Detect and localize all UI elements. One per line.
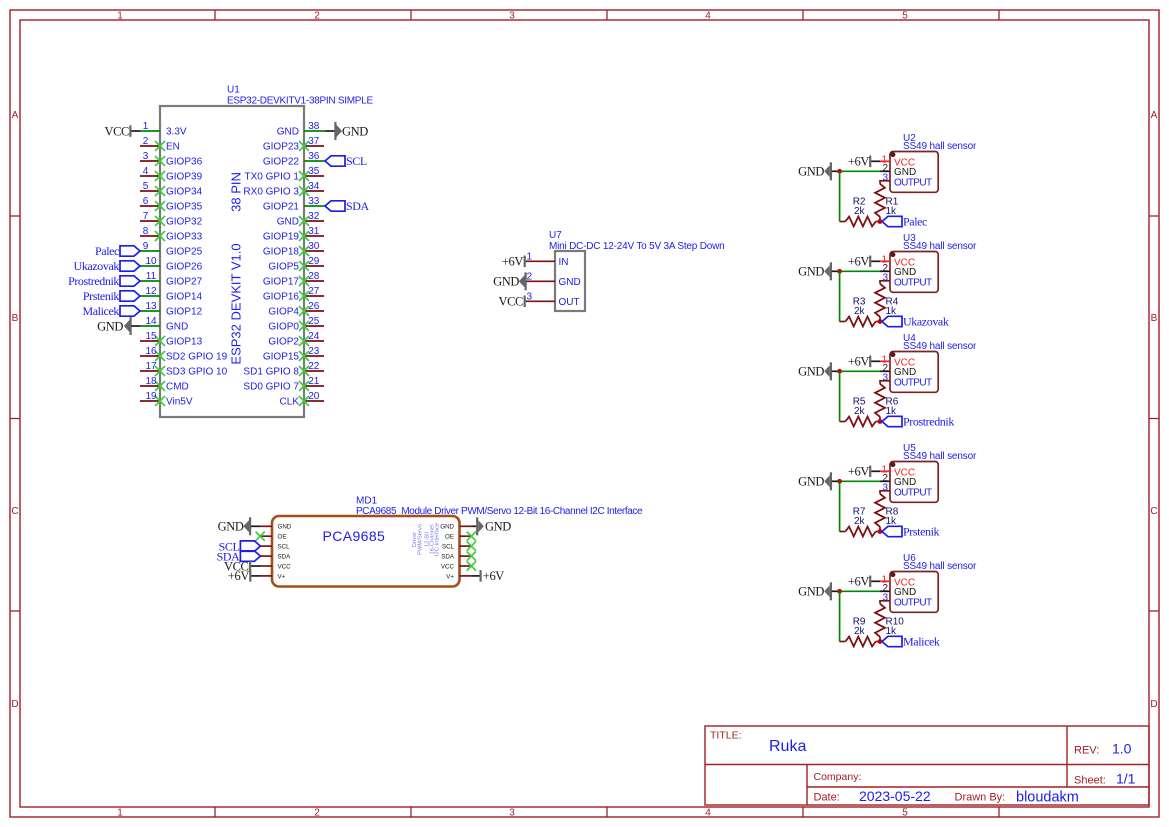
svg-text:C: C [1150, 506, 1157, 517]
svg-text:10: 10 [145, 256, 157, 267]
svg-text:GND: GND [278, 524, 292, 531]
U1 pin 25 (GIOP0) [268, 316, 324, 333]
svg-text:GIOP5: GIOP5 [268, 262, 299, 273]
svg-text:+6V: +6V [228, 569, 249, 583]
svg-text:30: 30 [308, 241, 320, 252]
svg-text:3: 3 [882, 173, 888, 184]
wire GND junction to U5 pin 2 [840, 480, 880, 482]
wire U2 OUTPUT to resistor R1 [880, 181, 890, 184]
wire GND junction to U6 pin 2 [840, 590, 880, 592]
column ticks bottom [215, 807, 999, 817]
U1 pin 11 (GIOP27) [140, 271, 203, 288]
svg-text:20: 20 [308, 391, 320, 402]
junction at U2 GND node [837, 169, 842, 174]
svg-text:11: 11 [146, 271, 157, 282]
U3 pin 1 VCC [880, 255, 915, 269]
junction at U4 output node [878, 419, 883, 424]
U5 pin 2 GND [880, 473, 916, 488]
net port Malicek at U1 pin 13 [82, 304, 140, 318]
U1 pin 10 (GIOP26) [140, 256, 203, 273]
no-connect X at MD1 right OE pin [467, 532, 476, 541]
svg-text:GIOP33: GIOP33 [166, 232, 203, 243]
title block outline [705, 726, 1149, 805]
svg-text:1: 1 [117, 11, 123, 22]
svg-text:GIOP19: GIOP19 [263, 232, 300, 243]
U6 orientation dot [890, 572, 895, 577]
svg-text:16: 16 [145, 346, 157, 357]
net port SDA at U1 pin 33 [325, 199, 370, 213]
component U6 body (SS49 hall sensor) [890, 572, 938, 613]
U7 pin 1 (IN) [527, 252, 569, 269]
power port +6V at U5 pin 1 [848, 465, 880, 479]
svg-text:GIOP0: GIOP0 [268, 322, 299, 333]
U1 pin 32 (GND) [277, 211, 324, 228]
U6 pin 3 OUTPUT [882, 593, 932, 609]
svg-text:15: 15 [145, 331, 157, 342]
resistor R7 horizontal [840, 527, 880, 537]
U4 orientation dot [890, 352, 895, 357]
svg-text:PWM/Servo: PWM/Servo [418, 524, 424, 555]
ground symbol at U7 pin 2 [493, 272, 528, 290]
svg-text:19: 19 [145, 391, 157, 402]
row labels right A-D [1150, 110, 1157, 710]
U6 pin 1 VCC [880, 575, 915, 589]
svg-text:12: 12 [145, 286, 157, 297]
svg-text:29: 29 [308, 256, 320, 267]
svg-text:SDA: SDA [441, 554, 455, 561]
svg-text:Sheet:: Sheet: [1074, 775, 1106, 787]
U1 pin 18 (CMD) [140, 376, 189, 393]
net port Prostrednik at U1 pin 11 [68, 274, 140, 288]
junction at U5 GND node [837, 479, 842, 484]
ground symbol at MD1 left GND pin [218, 517, 261, 535]
svg-text:GND: GND [798, 165, 824, 179]
svg-text:2: 2 [143, 136, 149, 147]
svg-text:23: 23 [308, 346, 320, 357]
svg-text:GND: GND [493, 275, 519, 289]
svg-text:GIOP39: GIOP39 [166, 172, 203, 183]
svg-text:SCL: SCL [346, 154, 367, 168]
svg-text:9: 9 [143, 241, 149, 252]
net port Ukazovak at U3 output [882, 315, 949, 329]
svg-text:Palec: Palec [903, 215, 927, 229]
column ticks top [215, 10, 999, 20]
net port SCL at MD1 [219, 539, 261, 553]
power port +6V at U3 pin 1 [848, 255, 880, 269]
U1 pin 21 (SD0 GPIO 7) [243, 376, 324, 393]
resistor R2 horizontal [840, 217, 880, 227]
svg-text:GIOP27: GIOP27 [166, 277, 203, 288]
U1 pin 34 (RX0 GPIO 3) [243, 181, 324, 198]
U7 pin 3 (OUT) [527, 292, 580, 309]
ground symbol at U1 pin 14 [97, 317, 140, 335]
svg-text:2: 2 [314, 808, 320, 819]
svg-text:3: 3 [143, 151, 149, 162]
svg-text:VCC: VCC [498, 295, 523, 309]
svg-text:GIOP23: GIOP23 [263, 142, 300, 153]
wire GND junction down to resistor R7 [839, 481, 841, 531]
resistor R9 horizontal [840, 637, 880, 647]
svg-text:GND: GND [798, 585, 824, 599]
svg-text:6: 6 [143, 196, 149, 207]
svg-text:13: 13 [145, 301, 157, 312]
svg-text:REV:: REV: [1074, 745, 1099, 757]
svg-text:1k: 1k [886, 406, 898, 417]
net port Palec at U1 pin 9 [95, 244, 140, 258]
svg-text:GIOP25: GIOP25 [166, 247, 203, 258]
net port SCL at U1 pin 36 [325, 154, 367, 168]
svg-text:TX0 GPIO 1: TX0 GPIO 1 [245, 172, 300, 183]
MD1 right pin SCL [442, 544, 471, 551]
svg-text:Prostrednik: Prostrednik [68, 274, 119, 288]
svg-text:SCL: SCL [442, 544, 455, 551]
svg-text:SD1 GPIO 8: SD1 GPIO 8 [243, 367, 299, 378]
wire GND junction down to resistor R5 [839, 371, 841, 421]
svg-text:SS49 hall sensor: SS49 hall sensor [903, 451, 977, 462]
junction at U4 GND node [837, 369, 842, 374]
svg-text:35: 35 [308, 166, 320, 177]
ground symbol at U2 pin 2 [798, 162, 839, 180]
U1 pin 24 (GIOP2) [268, 331, 324, 348]
svg-text:34: 34 [308, 181, 320, 192]
wire U1 pin 36 to SCL port [304, 160, 325, 162]
svg-text:D: D [11, 699, 18, 710]
svg-text:Prstenik: Prstenik [83, 289, 120, 303]
svg-text:17: 17 [145, 361, 157, 372]
U1 pin 4 (GIOP39) [140, 166, 203, 183]
svg-text:U1: U1 [227, 85, 240, 96]
ground symbol at MD1 right GND pin [471, 517, 511, 535]
svg-text:B: B [1151, 313, 1158, 324]
svg-text:VCC: VCC [104, 124, 129, 138]
power port +6V at U2 pin 1 [848, 155, 880, 169]
svg-text:GIOP22: GIOP22 [263, 157, 300, 168]
svg-text:SS49 hall sensor: SS49 hall sensor [903, 241, 977, 252]
wire GND junction down to resistor R2 [839, 171, 841, 221]
ground symbol at U5 pin 2 [798, 472, 839, 490]
net port Palec at U2 output [882, 215, 927, 229]
svg-text:1: 1 [117, 808, 123, 819]
svg-text:2k: 2k [854, 516, 866, 527]
svg-text:32: 32 [308, 211, 320, 222]
svg-text:5: 5 [143, 181, 149, 192]
no-connect X at MD1 right SCL pin [467, 542, 476, 551]
ground symbol at U3 pin 2 [798, 262, 839, 280]
U1 pin 8 (GIOP33) [140, 226, 203, 243]
MD1 right pin VCC [441, 563, 471, 570]
svg-text:GND: GND [798, 365, 824, 379]
power port VCC at MD1 [224, 559, 260, 573]
svg-text:3: 3 [882, 593, 888, 604]
svg-text:Company:: Company: [814, 771, 862, 783]
svg-text:Ukazovak: Ukazovak [74, 259, 120, 273]
ground symbol at U4 pin 2 [798, 362, 839, 380]
row ticks right [1149, 216, 1159, 611]
svg-text:3: 3 [509, 11, 515, 22]
svg-text:A: A [12, 110, 19, 121]
svg-text:+6V: +6V [483, 569, 504, 583]
junction at U6 output node [878, 639, 883, 644]
svg-text:1k: 1k [886, 206, 898, 217]
svg-text:1k: 1k [886, 516, 898, 527]
svg-text:Palec: Palec [95, 244, 119, 258]
MD1 left pin OE [260, 534, 286, 541]
svg-text:CLK: CLK [280, 397, 300, 408]
svg-text:28: 28 [308, 271, 320, 282]
U1 pin 20 (CLK) [280, 391, 324, 408]
svg-text:5: 5 [902, 808, 908, 819]
net port Malicek at U6 output [882, 635, 940, 649]
svg-text:SD2 GPIO 19: SD2 GPIO 19 [166, 352, 228, 363]
U6 pin 2 GND [880, 583, 916, 598]
svg-text:2: 2 [314, 11, 320, 22]
U2 pin 2 GND [880, 163, 916, 178]
power port +6V at MD1 right V+ pin [471, 569, 504, 583]
MD1 right pin V+ [446, 573, 471, 580]
U1 pin 6 (GIOP35) [140, 196, 203, 213]
wire U1 pin 33 to SDA port [304, 205, 325, 207]
MD1 left pin SDA [260, 554, 291, 561]
svg-text:SDA: SDA [278, 554, 292, 561]
svg-text:GIOP14: GIOP14 [166, 292, 203, 303]
svg-text:+6V: +6V [848, 575, 869, 589]
U4 pin 2 GND [880, 363, 916, 378]
U1 pin 36 (GIOP22) [263, 151, 320, 168]
svg-text:Malicek: Malicek [82, 304, 119, 318]
svg-text:3: 3 [509, 808, 515, 819]
MD1 left pin GND [260, 524, 291, 531]
svg-text:25: 25 [308, 316, 320, 327]
MD1 left pin SCL [260, 544, 290, 551]
svg-text:OUTPUT: OUTPUT [894, 377, 932, 388]
wire U6 OUTPUT to resistor R10 [880, 601, 890, 604]
svg-text:+6V: +6V [848, 355, 869, 369]
svg-text:GIOP21: GIOP21 [263, 202, 300, 213]
component U1 body [160, 106, 304, 417]
svg-text:2023-05-22: 2023-05-22 [859, 788, 931, 804]
net port Prstenik at U5 output [882, 525, 940, 539]
svg-text:1k: 1k [886, 306, 898, 317]
row labels left A-D [11, 110, 18, 710]
U1 pin 35 (TX0 GPIO 1) [245, 166, 324, 183]
wire U1 pin 38 to GND [304, 130, 326, 132]
svg-text:24: 24 [308, 331, 320, 342]
U1 pin 23 (GIOP15) [263, 346, 324, 363]
junction at U2 output node [878, 219, 883, 224]
svg-text:Prostrednik: Prostrednik [903, 415, 954, 429]
svg-text:5: 5 [902, 11, 908, 22]
component U5 body (SS49 hall sensor) [890, 462, 938, 503]
U1 pin 7 (GIOP32) [140, 211, 203, 228]
power port +6V at U6 pin 1 [848, 575, 880, 589]
svg-text:V+: V+ [278, 573, 286, 580]
no-connect X at MD1 left OE pin [256, 532, 265, 541]
svg-text:4: 4 [143, 166, 149, 177]
svg-text:3: 3 [882, 483, 888, 494]
wire GND junction down to resistor R9 [839, 591, 841, 641]
svg-text:GND: GND [485, 520, 511, 534]
ground symbol at U1 pin 38 [326, 122, 369, 140]
svg-text:+6V: +6V [502, 255, 523, 269]
junction at U3 output node [878, 319, 883, 324]
U1 pin 29 (GIOP5) [268, 256, 324, 273]
svg-text:Ukazovak: Ukazovak [903, 315, 949, 329]
MD1 right pin GND [440, 524, 471, 531]
U5 pin 1 VCC [880, 465, 915, 479]
svg-text:GND: GND [97, 319, 123, 333]
U1 pin 30 (GIOP18) [263, 241, 324, 258]
svg-text:SD0 GPIO 7: SD0 GPIO 7 [243, 382, 299, 393]
svg-text:GND: GND [342, 124, 368, 138]
svg-text:ESP32-DEVKITV1-38PIN SIMPLE: ESP32-DEVKITV1-38PIN SIMPLE [227, 96, 373, 107]
svg-text:8: 8 [143, 226, 149, 237]
svg-text:GIOP2: GIOP2 [268, 337, 299, 348]
column labels bottom 1-5 [117, 808, 908, 819]
net port Ukazovak at U1 pin 10 [74, 259, 140, 273]
U1 pin 16 (SD2 GPIO 19) [140, 346, 228, 363]
component U7 body [555, 251, 585, 311]
svg-text:OUTPUT: OUTPUT [894, 277, 932, 288]
power port +6V at U4 pin 1 [848, 355, 880, 369]
MD1 right pin SDA [441, 554, 471, 561]
junction at U5 output node [878, 529, 883, 534]
svg-text:GND: GND [218, 520, 244, 534]
svg-text:GIOP12: GIOP12 [166, 307, 203, 318]
U1 pin 14 (GND) [140, 316, 188, 333]
U1 pin 9 (GIOP25) [140, 241, 203, 258]
ground symbol at U6 pin 2 [798, 582, 839, 600]
column labels top 1-5 [117, 11, 908, 22]
svg-text:OUTPUT: OUTPUT [894, 177, 932, 188]
net port Prstenik at U1 pin 12 [83, 289, 140, 303]
svg-text:4: 4 [705, 11, 711, 22]
svg-text:TITLE:: TITLE: [710, 730, 742, 742]
junction at U6 GND node [837, 589, 842, 594]
svg-text:38 PIN: 38 PIN [229, 172, 244, 212]
svg-text:27: 27 [308, 286, 320, 297]
svg-text:GIOP13: GIOP13 [166, 337, 203, 348]
U1 pin 28 (GIOP17) [263, 271, 324, 288]
svg-text:GND: GND [559, 277, 581, 288]
svg-text:GIOP15: GIOP15 [263, 352, 300, 363]
svg-text:Ruka: Ruka [769, 738, 806, 755]
power port +6V at MD1 V+ pin [228, 569, 261, 583]
U5 orientation dot [890, 462, 895, 467]
svg-text:26: 26 [308, 301, 320, 312]
svg-text:OUTPUT: OUTPUT [894, 597, 932, 608]
svg-text:GIOP35: GIOP35 [166, 202, 203, 213]
U4 pin 1 VCC [880, 355, 915, 369]
svg-text:21: 21 [308, 376, 320, 387]
power port VCC at U1 pin 1 [104, 124, 140, 138]
svg-text:+6V: +6V [848, 155, 869, 169]
MD1 left pin VCC [260, 563, 291, 570]
svg-text:PCA9685: PCA9685 [323, 528, 386, 544]
wire U4 OUTPUT to resistor R6 [880, 381, 890, 384]
svg-text:1k: 1k [886, 626, 898, 637]
U2 orientation dot [890, 152, 895, 157]
U3 pin 2 GND [880, 263, 916, 278]
svg-text:A: A [1151, 110, 1158, 121]
svg-text:GND: GND [440, 524, 454, 531]
U2 pin 3 OUTPUT [882, 173, 932, 189]
row ticks left [10, 216, 20, 611]
svg-text:GND: GND [166, 322, 188, 333]
svg-text:GIOP4: GIOP4 [268, 307, 299, 318]
U1 pin 5 (GIOP34) [140, 181, 203, 198]
net port Prostrednik at U4 output [882, 415, 954, 429]
U1 pin 37 (GIOP23) [263, 136, 324, 153]
svg-text:bloudakm: bloudakm [1016, 790, 1079, 806]
svg-text:OE: OE [445, 534, 454, 541]
U1 pin 15 (GIOP13) [140, 331, 203, 348]
svg-text:22: 22 [308, 361, 320, 372]
U5 pin 3 OUTPUT [882, 483, 932, 499]
svg-text:2k: 2k [854, 306, 866, 317]
MD1 rotated description text [412, 523, 441, 556]
svg-text:GIOP16: GIOP16 [263, 292, 300, 303]
net port SDA at MD1 [217, 549, 261, 563]
power port +6V at U7 pin 1 [502, 255, 528, 269]
component MD1 body [272, 516, 460, 587]
resistor R5 horizontal [840, 417, 880, 427]
svg-text:OE: OE [278, 534, 287, 541]
svg-text:GIOP26: GIOP26 [166, 262, 203, 273]
U1 pin 19 (Vin5V) [140, 391, 193, 408]
svg-text:+6V: +6V [848, 255, 869, 269]
svg-text:GND: GND [798, 265, 824, 279]
U1 pin 26 (GIOP4) [268, 301, 324, 318]
resistor R10 vertical [875, 604, 885, 642]
resistor R4 vertical [875, 284, 885, 322]
svg-text:SS49 hall sensor: SS49 hall sensor [903, 141, 977, 152]
svg-text:Date:: Date: [814, 792, 840, 804]
no-connect X at MD1 right VCC pin [467, 561, 476, 570]
svg-text:GND: GND [277, 217, 299, 228]
component U3 body (SS49 hall sensor) [890, 252, 938, 293]
resistor R6 vertical [875, 384, 885, 422]
resistor R3 horizontal [840, 317, 880, 327]
svg-text:SCL: SCL [278, 544, 291, 551]
resistor R1 vertical [875, 184, 885, 222]
svg-text:RX0 GPIO 3: RX0 GPIO 3 [243, 187, 299, 198]
svg-text:37: 37 [308, 136, 320, 147]
U1 pin 13 (GIOP12) [140, 301, 203, 318]
U1 pin 3 (GIOP36) [140, 151, 203, 168]
svg-text:GND: GND [798, 475, 824, 489]
svg-text:GIOP32: GIOP32 [166, 217, 203, 228]
svg-text:Prstenik: Prstenik [903, 525, 940, 539]
U1 pin 22 (SD1 GPIO 8) [243, 361, 324, 378]
svg-text:SDA: SDA [346, 199, 370, 213]
svg-text:Drawn By:: Drawn By: [955, 792, 1006, 804]
svg-text:CMD: CMD [166, 382, 189, 393]
svg-text:SS49 hall sensor: SS49 hall sensor [903, 341, 977, 352]
MD1 left pin V+ [260, 573, 285, 580]
svg-text:4: 4 [705, 808, 711, 819]
svg-text:GIOP34: GIOP34 [166, 187, 203, 198]
wire GND junction to U3 pin 2 [840, 270, 880, 272]
svg-text:1.0: 1.0 [1112, 741, 1132, 757]
svg-text:SD3 GPIO 10: SD3 GPIO 10 [166, 367, 228, 378]
svg-text:18: 18 [145, 376, 157, 387]
wire GND junction to U4 pin 2 [840, 370, 880, 372]
U2 pin 1 VCC [880, 155, 915, 169]
U1 pin 1 (3.3V) [140, 121, 187, 138]
wire GND junction to U2 pin 2 [840, 170, 880, 172]
U1 pin 33 (GIOP21) [263, 196, 320, 213]
U1 pin 12 (GIOP14) [140, 286, 203, 303]
